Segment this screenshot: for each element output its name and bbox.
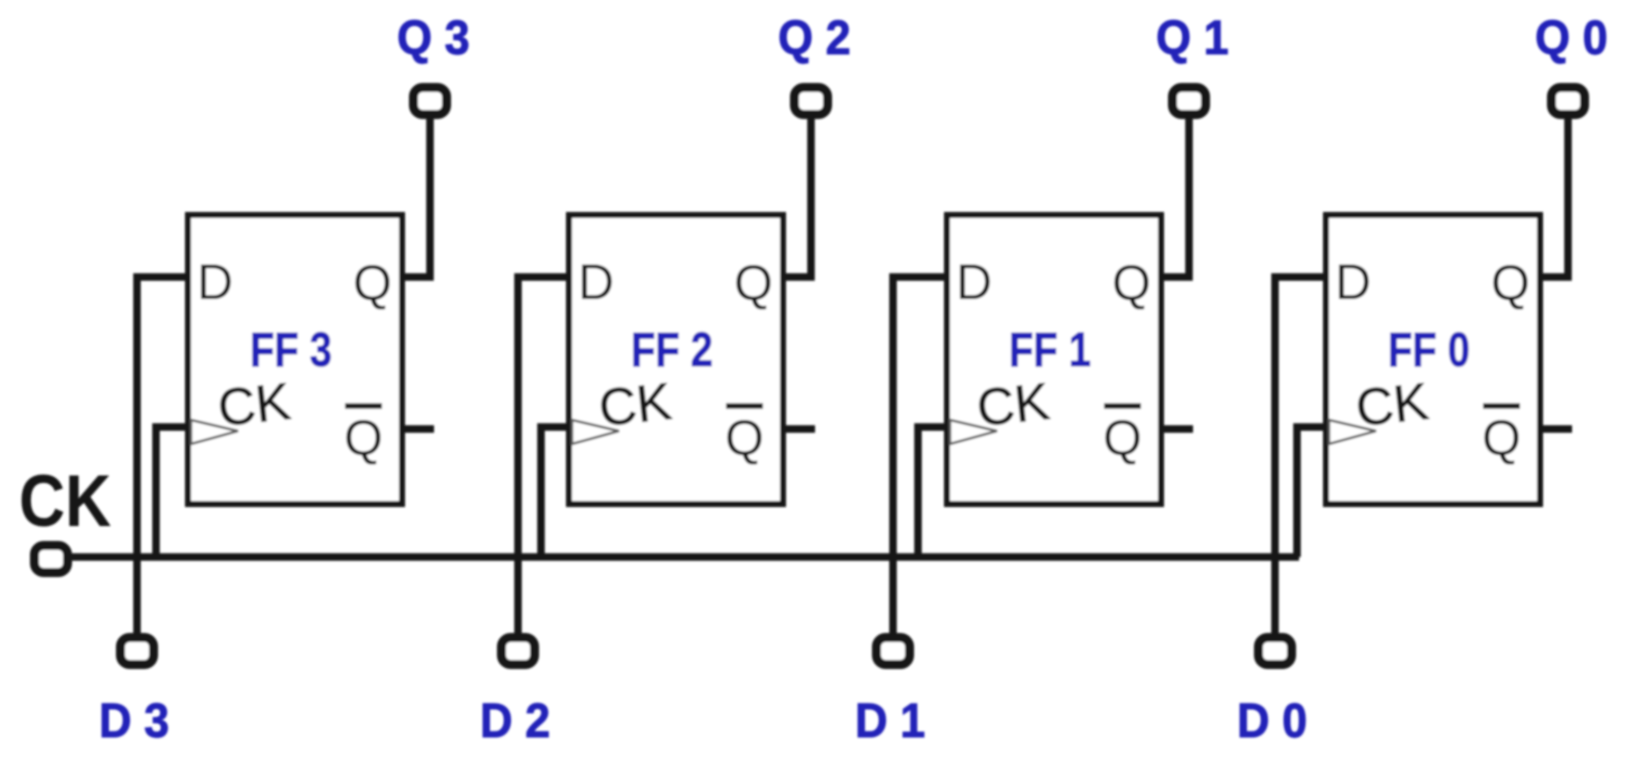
svg-text:D 1: D 1 xyxy=(855,694,925,748)
svg-text:D: D xyxy=(1335,254,1371,310)
svg-text:Q: Q xyxy=(1491,255,1530,311)
svg-text:D 2: D 2 xyxy=(480,694,550,748)
svg-text:FF 1: FF 1 xyxy=(1009,324,1091,377)
svg-text:CK: CK xyxy=(596,373,674,438)
svg-text:Q: Q xyxy=(344,410,383,466)
svg-text:FF 3: FF 3 xyxy=(250,324,332,377)
svg-text:Q: Q xyxy=(1482,410,1521,466)
svg-text:Q: Q xyxy=(1103,410,1142,466)
svg-text:FF 2: FF 2 xyxy=(631,324,713,377)
svg-text:D: D xyxy=(578,254,614,310)
svg-text:Q 0: Q 0 xyxy=(1535,11,1608,65)
svg-text:FF 0: FF 0 xyxy=(1388,324,1470,377)
svg-text:CK: CK xyxy=(215,373,293,438)
svg-text:Q: Q xyxy=(734,255,773,311)
svg-text:Q 2: Q 2 xyxy=(778,11,851,65)
svg-text:Q: Q xyxy=(353,255,392,311)
svg-text:D 0: D 0 xyxy=(1237,694,1307,748)
svg-text:D: D xyxy=(956,254,992,310)
svg-text:Q: Q xyxy=(1112,255,1151,311)
svg-text:D 3: D 3 xyxy=(99,694,169,748)
svg-text:CK: CK xyxy=(19,460,111,542)
svg-text:Q: Q xyxy=(725,410,764,466)
svg-text:CK: CK xyxy=(1353,373,1431,438)
svg-text:Q 3: Q 3 xyxy=(397,11,470,65)
svg-text:D: D xyxy=(197,254,233,310)
svg-text:CK: CK xyxy=(974,373,1052,438)
svg-text:Q 1: Q 1 xyxy=(1156,11,1229,65)
